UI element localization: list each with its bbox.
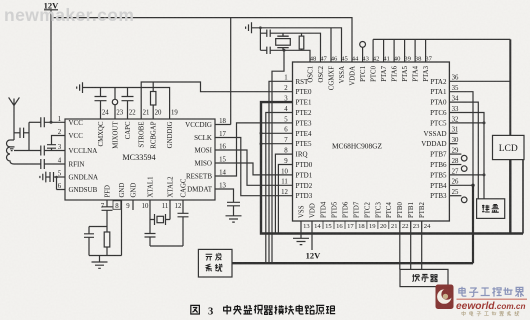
node pin23 test point — [114, 88, 116, 120]
junction PTA1-PTB4 — [471, 184, 474, 187]
U2 right pin numbers — [452, 75, 459, 196]
box dev system — [198, 249, 232, 277]
wire U2 top bus pins42-37 — [373, 38, 510, 40]
capacitor C14 — [260, 30, 270, 37]
U1 bottom pin numbers — [101, 203, 182, 210]
junction PTC5 — [483, 121, 486, 124]
U2 bottom pin names rotated — [298, 201, 426, 218]
wire antenna down — [13, 108, 15, 141]
U2 top pin numbers — [310, 56, 433, 63]
U2 top pin names rotated — [307, 65, 430, 90]
U1 bottom pin names rotated — [105, 176, 188, 198]
ground U1 GNDLNA — [40, 172, 46, 183]
U1 right pin numbers — [219, 118, 226, 190]
logo eeworld chinese title — [459, 287, 524, 297]
wire RESETB pin14 to U2 PTE3 — [215, 123, 293, 176]
wire U1 pin12 CAGC — [182, 200, 184, 213]
wire C4 to antenna ground — [14, 150, 41, 152]
box LCD — [493, 135, 525, 159]
wire OSC1 net to dev system — [272, 50, 284, 263]
box keyboard label — [482, 205, 499, 213]
wire U2 IRQ to dev system — [275, 154, 292, 233]
resistor R2 — [106, 227, 108, 256]
junction PTB5 — [483, 173, 486, 176]
wire dev system bus — [232, 262, 473, 264]
wire U2 PTE4 — [261, 132, 293, 134]
logo eeworld icon — [436, 285, 454, 310]
ground pin3 mini — [9, 147, 15, 151]
capacitor C6 — [50, 172, 54, 182]
wire U2 PTA0 to keyboard — [449, 102, 478, 199]
ground DMDAT — [226, 206, 242, 222]
wire C5 to inductor — [14, 163, 41, 165]
wire DMDAT pin13 — [215, 189, 234, 202]
wire U1 pin4 RFIN — [44, 163, 65, 165]
wire U2 VDDAD stub — [449, 143, 457, 145]
wire U2 pin46 CGMXF — [330, 28, 332, 62]
ground U2 osc — [246, 22, 252, 33]
inductor L1 — [7, 140, 15, 164]
node U2 pin43 test point — [362, 47, 364, 62]
junction 12V-pin1 — [50, 121, 53, 124]
wire C9 down — [106, 210, 108, 226]
logo tagline — [462, 311, 519, 316]
wire RC top rail — [89, 226, 107, 228]
wire MISO pin15 to U2 PTD1 — [215, 163, 293, 175]
U1 top pin numbers — [102, 110, 178, 117]
capacitor C11 — [145, 234, 156, 238]
wire U2 VSSAD stub — [449, 132, 457, 134]
wire U1 pin22 stub — [127, 88, 129, 120]
ground RC — [92, 256, 108, 269]
wire U2 PTA1 to keyboard net — [449, 92, 473, 186]
wire U2 PTE2 to dev system — [266, 113, 293, 264]
wire U2 PTD0 to dev system — [278, 165, 292, 234]
transistor U2 MC68HC908GZ body — [293, 62, 450, 221]
wire MOSI pin16 to U2 PTD2 — [215, 150, 293, 185]
capacitor C15 — [260, 47, 270, 54]
wire U1 pin24 stub — [100, 88, 102, 120]
wire 12V branch to U1 VCC pins — [50, 10, 52, 123]
wire osc bottom rail to pin48 OSC1 — [270, 50, 310, 62]
wire C2 to RF node — [29, 121, 41, 123]
junction crystal OSC1 — [283, 49, 286, 52]
wire U2 VSS pin13 — [300, 221, 302, 238]
wire U1 top ground rail to pin19 GNDDIG — [83, 88, 170, 120]
ground U1 top rail — [77, 82, 83, 93]
capacitor C4 — [41, 146, 45, 156]
box speaker — [400, 269, 448, 286]
capacitor C13 — [227, 202, 240, 206]
capacitor C12 — [178, 213, 189, 246]
box keyboard — [477, 199, 505, 219]
wire U2 top pin stubs — [310, 55, 426, 62]
wire U1 pin8 GND — [121, 200, 123, 256]
wire C1 to RF node — [24, 132, 29, 134]
node U2 PTB6 open circle — [449, 164, 461, 166]
capacitor C3 — [47, 145, 56, 149]
box dev system label — [206, 253, 223, 272]
wire speaker PTB2 — [421, 221, 423, 269]
U2 left pin numbers — [281, 75, 288, 196]
wire U2 PTB5 — [449, 174, 484, 176]
wire XTAL bottom rail — [150, 237, 183, 246]
wire U1 pin2 VCC — [52, 136, 66, 145]
resistor R3 — [301, 33, 303, 50]
junction osc leg — [259, 26, 262, 29]
wire LCD top riser — [509, 39, 511, 135]
wire RF node vertical — [28, 122, 30, 150]
node U2 PTB7 open circle — [449, 153, 461, 155]
antenna E1 — [9, 97, 20, 107]
wire speaker PTB1 — [410, 221, 412, 269]
wire U2 RST to dev system — [269, 81, 293, 263]
pin 8 number box U1 — [113, 201, 121, 210]
capacitor C10 — [84, 227, 94, 256]
node 12V top-left tick — [44, 9, 58, 11]
wire U1 pin10 XTAL1 — [149, 200, 151, 234]
capacitor C2 — [41, 117, 45, 127]
wire C3 to pin3 net — [51, 148, 53, 150]
crystal X1 — [150, 214, 170, 225]
wire speaker PTB0 — [399, 221, 401, 269]
wire 12V rail to U2 pin44 VDDA — [51, 18, 352, 62]
wire U1 pin5 GNDLNA — [54, 176, 66, 178]
junction PTE4 bus — [260, 132, 263, 135]
wire LCD bottom right riser — [522, 160, 524, 234]
logo underline — [457, 299, 528, 300]
wire antenna tap — [14, 132, 20, 134]
wire gnd to C6 — [46, 176, 50, 178]
wire U2 PTC6 to keyboard — [449, 113, 484, 199]
box speaker label — [412, 274, 437, 282]
wire U1 pin11 XTAL2 — [169, 200, 171, 220]
caption figure 3 title — [191, 305, 335, 315]
capacitor C8 — [122, 97, 134, 101]
U2 left pin names — [296, 78, 313, 200]
ground U2 VSS — [293, 238, 309, 244]
wire U1 pin3 VCCLNA — [44, 150, 65, 152]
capacitor C9 — [102, 207, 113, 211]
wire U1 pin6 GNDSUB — [57, 177, 66, 190]
wire osc ground rail to pin45 VSSA — [252, 28, 342, 62]
wire SCLK pin17 to U2 PTD3 — [215, 138, 293, 196]
capacitor C1 — [20, 128, 24, 138]
wire U2 bottom pin stubs — [301, 221, 422, 229]
wire thick loop PTE1-LCD — [261, 102, 523, 233]
wire STROBE pin21 to U2 PTE0 — [141, 82, 292, 119]
wire U1 pin1 VCC — [44, 121, 65, 123]
U1 left pin numbers — [58, 116, 62, 190]
wire U1 pin7 PFD — [106, 200, 108, 207]
wire LCD bottom left riser — [509, 160, 511, 234]
node U2 PTB3 open circle — [449, 195, 461, 197]
wire osc top rail to pin47 OSC2 — [270, 33, 320, 62]
wire U2 PTC5 — [449, 122, 484, 124]
U2 right pin names — [421, 78, 447, 200]
capacitor C7 — [95, 97, 107, 101]
wire RC bottom rail — [89, 255, 122, 257]
wire U2 PTA2 to LCD riser — [449, 80, 510, 82]
capacitor C5 — [41, 159, 45, 169]
junction PTE5 bus — [260, 142, 263, 145]
op-amp U1 MC33594 body — [65, 119, 215, 200]
U2 bottom pin numbers — [303, 223, 431, 230]
wire osc cap leg — [259, 28, 261, 51]
U1 top pin names rotated — [98, 121, 174, 149]
resistor R1 — [152, 82, 154, 119]
U1 left pin names — [69, 119, 99, 194]
wire 12V branch to U1 pin18 VCCDIG — [215, 18, 231, 125]
wire U2 PTE5 — [261, 143, 293, 145]
wire U2 VDD pin14 to 12V — [311, 221, 313, 250]
U1 right pin names — [185, 121, 213, 194]
wire U2 PTB4 — [449, 184, 473, 186]
junction pin5-pin6 — [55, 176, 58, 179]
wire U1 pin9 GND — [132, 200, 134, 210]
crystal X2 — [277, 33, 288, 50]
